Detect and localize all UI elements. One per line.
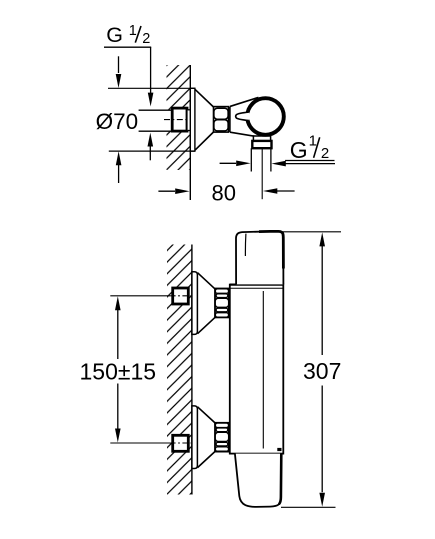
svg-text:150±15: 150±15 <box>80 358 157 384</box>
outlet centerline (top view) <box>261 148 263 199</box>
svg-text:Ø70: Ø70 <box>96 109 139 134</box>
svg-text:G: G <box>290 137 308 163</box>
lower supply centerline (front view) <box>110 442 170 444</box>
supply pipe stub in wall (top view) <box>139 110 172 131</box>
svg-text:1: 1 <box>309 133 317 150</box>
upper escutcheon cone (front view) <box>198 273 216 334</box>
thermostat handle circle (top view) <box>247 98 284 135</box>
label G 1/2 (top left) <box>104 23 151 47</box>
svg-text:G: G <box>106 23 123 47</box>
label G 1/2 (right of outlet) <box>285 133 334 163</box>
valve body (front view) <box>230 285 283 454</box>
lower union nut (front view) <box>215 423 229 452</box>
extension lines Ø70 <box>108 87 195 89</box>
handle pointer (top view) <box>236 112 250 121</box>
lower shower handle (front view) <box>235 454 281 507</box>
body centerline (front view) <box>262 291 264 449</box>
wall (top view, hatched section) <box>167 65 191 170</box>
wall face line (front view) <box>191 245 193 495</box>
svg-text:1: 1 <box>129 23 137 39</box>
G1/2 thread dimension arrows (outlet) <box>220 161 335 167</box>
lower union square (front view) <box>173 435 189 451</box>
dimension Ø70 arrows <box>116 56 122 183</box>
outlet tube edges (top view) <box>250 148 252 171</box>
svg-text:2: 2 <box>321 145 329 162</box>
leader arrow from G1/2 down to pipe top (top view) <box>148 47 154 106</box>
wall (front view, hatched section) <box>167 245 192 495</box>
dimension 307 <box>280 232 341 508</box>
temperature handle cap (front view) <box>236 231 283 284</box>
dimension 80 <box>158 180 294 205</box>
union nut (top view) <box>214 107 230 133</box>
svg-text:2: 2 <box>142 31 150 47</box>
dimension 150±15 <box>80 296 157 442</box>
lower escutcheon cone (front view) <box>198 407 216 468</box>
upper supply centerline (front view) <box>110 295 170 297</box>
svg-text:80: 80 <box>212 180 236 205</box>
indicator tick on body (front view) <box>277 448 281 451</box>
escutcheon cone (top view) <box>195 89 213 150</box>
pipe centerline (top view, dash-dot) <box>164 119 190 121</box>
wall face line (top view) <box>189 65 191 200</box>
handle right edge thick stroke <box>279 454 281 505</box>
valve body outline (top view) <box>230 97 259 106</box>
outlet nut band (top view) <box>252 141 271 148</box>
upper escutcheon plate (front view) <box>192 272 198 335</box>
eccentric union square (top view) <box>172 108 187 131</box>
svg-text:307: 307 <box>303 358 341 384</box>
opposing arrow up to pipe bottom (top view) <box>148 133 154 161</box>
upper union square (front view) <box>173 288 189 304</box>
outlet collar (top view) <box>253 136 270 141</box>
upper union nut (front view) <box>215 289 229 318</box>
lower escutcheon plate (front view) <box>192 406 198 469</box>
escutcheon plate (top view) <box>190 88 195 151</box>
nipple between union and escutcheon (top view) <box>188 110 195 131</box>
